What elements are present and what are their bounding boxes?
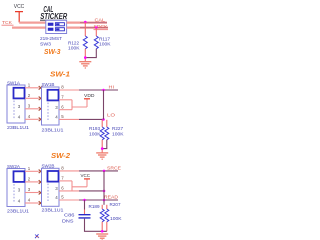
wire R122 bottom lead — [84, 49, 86, 61]
resistor R207 zigzag — [105, 209, 109, 222]
svg-text:219-2MST: 219-2MST — [40, 36, 62, 42]
svg-text:23BL1U1: 23BL1U1 — [42, 127, 64, 133]
junction dot ground join — [101, 230, 104, 233]
wire R193 bottom lead — [101, 140, 103, 153]
svg-text:R227: R227 — [112, 126, 123, 132]
svg-text:R207: R207 — [110, 202, 121, 208]
svg-text:HI: HI — [109, 85, 115, 90]
no-connect X pin3 — [39, 107, 43, 111]
ground GND3 striped — [96, 234, 108, 240]
svg-text:23BL1U1: 23BL1U1 — [42, 208, 64, 214]
no-connect X pin3 SW2A — [39, 191, 43, 195]
junction dot READ-C86 — [83, 199, 86, 202]
junction dot resistor join — [84, 56, 87, 59]
svg-text:4: 4 — [28, 198, 31, 203]
svg-text:C86: C86 — [64, 212, 75, 218]
svg-text:100K: 100K — [110, 216, 122, 222]
junction dot R122 tap — [84, 21, 87, 24]
resistor R122 zigzag — [83, 36, 87, 49]
svg-text:R193: R193 — [89, 126, 100, 132]
switch SW1B actuator square — [48, 90, 59, 101]
wire R189 top lead — [101, 205, 103, 209]
junction dot READ-R207 — [103, 199, 106, 202]
svg-text:5: 5 — [61, 195, 64, 200]
wire R207 top lead — [106, 205, 108, 209]
ground GND1 striped — [79, 62, 91, 68]
switch SW3 slider row 1 — [48, 23, 54, 26]
switch SW1A gang dashed line — [13, 101, 15, 120]
resistor R193 zigzag — [100, 127, 104, 140]
switch SW1A body — [7, 85, 25, 123]
resistor R227 zigzag — [105, 127, 109, 140]
svg-text:6: 6 — [61, 186, 64, 191]
svg-text:100K: 100K — [112, 131, 124, 137]
svg-text:23BL1U1: 23BL1U1 — [7, 209, 29, 215]
wire R117 bottom lead join — [85, 49, 96, 58]
svg-text:4: 4 — [28, 114, 31, 119]
no-connect X pin1 SW2A — [39, 170, 43, 174]
wire R193 top lead — [101, 120, 103, 127]
capacitor C86 plates — [79, 215, 91, 218]
svg-text:3: 3 — [28, 104, 31, 109]
svg-text:8: 8 — [61, 85, 64, 90]
ground GND2 striped — [96, 153, 108, 159]
switch SW2A body — [7, 169, 25, 207]
switch SW3 box — [46, 20, 67, 33]
svg-text:SW-1: SW-1 — [50, 69, 70, 78]
switch SW1B body — [42, 87, 60, 125]
svg-text:READ: READ — [104, 194, 119, 199]
no-connect X pin2 — [39, 97, 43, 101]
wire second left net — [12, 27, 46, 29]
switch SW2B actuator square — [48, 171, 59, 182]
svg-text:DNS: DNS — [62, 218, 74, 224]
wire VCC ladder — [72, 179, 87, 191]
junction dot pin6 — [103, 190, 106, 193]
switch SW2A gang dashed line — [13, 184, 15, 203]
svg-text:SRCE: SRCE — [107, 165, 121, 170]
wire R117 lead down — [95, 28, 97, 36]
svg-text:VCC: VCC — [81, 173, 91, 179]
power VDD symbol — [84, 98, 90, 100]
power VCC symbol 2 — [84, 178, 90, 180]
no-connect X pin2 SW2A — [39, 180, 43, 184]
wire R227 bottom lead join — [102, 140, 107, 149]
svg-text:2: 2 — [28, 93, 31, 98]
svg-text:8: 8 — [61, 166, 64, 171]
svg-text:2: 2 — [28, 177, 31, 182]
svg-text:100K: 100K — [99, 41, 111, 47]
wire C86 drop — [84, 200, 86, 210]
svg-text:6: 6 — [61, 104, 64, 109]
annotation tiny mark bottom left — [35, 234, 39, 238]
svg-text:5: 5 — [61, 114, 64, 119]
svg-text:R189: R189 — [89, 204, 100, 210]
svg-text:LO: LO — [107, 113, 115, 118]
wire VDD ladder — [72, 99, 87, 110]
svg-text:7: 7 — [61, 95, 64, 100]
no-connect X pin1 — [39, 86, 43, 90]
power VCC symbol — [15, 12, 23, 23]
switch SW1B gang dashed line — [47, 103, 49, 121]
svg-text:SW-3: SW-3 — [44, 47, 61, 56]
switch SW2B gang dashed line — [47, 184, 49, 202]
svg-text:SW-2: SW-2 — [51, 151, 71, 160]
switch SW2B body — [42, 168, 60, 206]
svg-text:VCC: VCC — [14, 4, 25, 10]
junction dot R117 tap — [95, 26, 98, 29]
svg-text:100K: 100K — [68, 45, 80, 51]
svg-text:1: 1 — [28, 166, 31, 171]
resistor R117 zigzag — [94, 36, 98, 49]
wire R122 lead down — [84, 22, 86, 36]
svg-text:1: 1 — [28, 83, 31, 88]
wire R207 bottom lead — [106, 222, 108, 232]
no-connect X pin4 — [39, 118, 43, 122]
svg-text:3: 3 — [28, 187, 31, 192]
wire TCK top — [19, 22, 46, 24]
wire vertical HI down — [103, 90, 105, 119]
switch SW3 slider row 2 — [48, 28, 54, 31]
junction dot resistor join 2 — [101, 147, 104, 150]
svg-text:7: 7 — [61, 176, 64, 181]
wire C86 bottom route — [85, 219, 107, 232]
junction dot LO — [102, 118, 105, 121]
wire vertical SRCE down — [103, 171, 105, 205]
svg-text:VDD: VDD — [84, 93, 95, 99]
svg-text:TCK: TCK — [2, 20, 13, 25]
junction dot HI — [102, 89, 105, 92]
junction dot SRCE — [103, 170, 106, 173]
svg-text:100K: 100K — [89, 131, 101, 137]
switch SW1A actuator square — [14, 88, 25, 99]
wire SDCK to right — [67, 27, 108, 29]
svg-text:CAL: CAL — [95, 17, 106, 22]
wire CAL to right — [67, 22, 107, 24]
svg-text:23BL1U1: 23BL1U1 — [7, 125, 29, 131]
wire R227 top lead — [106, 120, 108, 127]
no-connect X pin4 SW2A — [39, 201, 43, 205]
resistor R189 zigzag — [100, 209, 104, 222]
wire R189 bottom lead — [101, 222, 103, 232]
switch SW2A actuator square — [14, 171, 25, 182]
